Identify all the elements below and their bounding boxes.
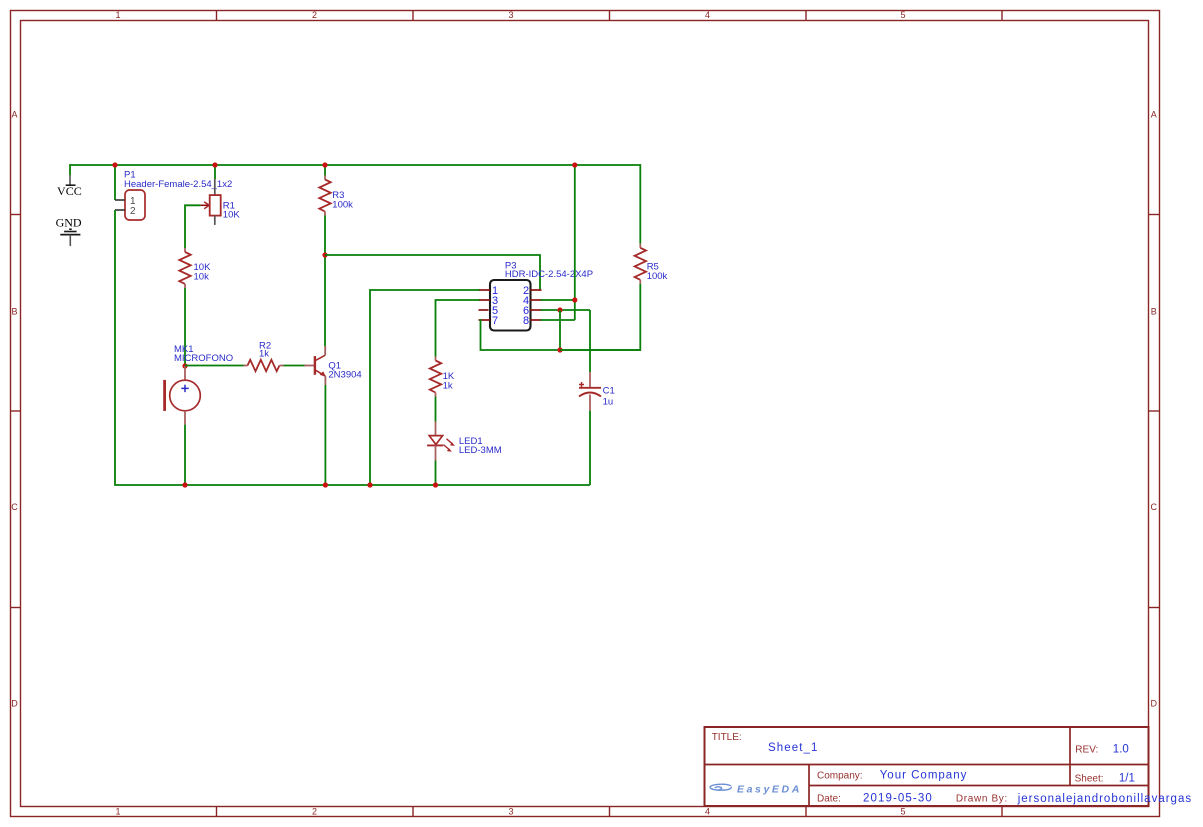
svg-text:3: 3: [508, 10, 513, 20]
svg-text:B: B: [1151, 307, 1157, 317]
label Q1: [328, 360, 341, 371]
resistor R5 100k: [635, 244, 646, 284]
label C1: [603, 386, 615, 397]
wire node to P3 pin2: [325, 255, 540, 290]
wire R4 bottom to mic node: [184, 288, 186, 366]
junction R5 net: [557, 347, 562, 352]
wire R2 to Q1 base: [284, 365, 305, 367]
svg-text:100k: 100k: [647, 271, 668, 282]
junction bottom rail at LED: [433, 482, 438, 487]
svg-text:1k: 1k: [443, 380, 453, 391]
resistor R4 10K/10k: [179, 248, 190, 288]
svg-text:C1: C1: [603, 386, 615, 397]
wire pin6 to C1: [589, 310, 591, 372]
junction top rail at R3: [322, 162, 327, 167]
wire R5 bottom to net: [560, 284, 640, 350]
wire P3 pin3: [436, 300, 480, 357]
svg-text:2: 2: [312, 10, 317, 20]
label R3: [332, 190, 344, 201]
connector P1 Header-Female-2.54_1x2: [115, 190, 145, 220]
svg-text:GND: GND: [56, 216, 82, 230]
label LED-3MM: [459, 445, 502, 456]
wire R3 top stub: [324, 165, 326, 176]
resistor R3 100k: [319, 176, 330, 216]
svg-text:A: A: [1151, 110, 1157, 120]
wire P3 pin4: [541, 299, 575, 301]
label 1k (R2 value): [259, 348, 269, 359]
svg-text:1: 1: [115, 10, 120, 20]
svg-text:5: 5: [900, 807, 905, 817]
ground GND symbol: [56, 216, 82, 246]
wire P3 pin6: [541, 309, 591, 311]
potentiometer R1 10K: [200, 179, 220, 225]
svg-text:10k: 10k: [194, 271, 210, 282]
VCC power symbol: [57, 175, 82, 198]
wire top rail drop to pin4/pin8: [574, 165, 576, 320]
junction bottom rail at mic: [182, 482, 187, 487]
wire R6 to LED1: [435, 397, 437, 422]
svg-text:Sheet_1: Sheet_1: [768, 742, 819, 754]
junction mic node: [182, 363, 187, 368]
junction bottom rail at Q1: [323, 482, 328, 487]
svg-text:1: 1: [115, 807, 120, 817]
label R2: [259, 341, 271, 352]
label R5: [647, 261, 659, 272]
wire mic to bottom rail: [184, 425, 186, 485]
svg-text:LED-3MM: LED-3MM: [459, 445, 502, 456]
label LED1: [459, 436, 483, 447]
junction pin4 node: [572, 297, 577, 302]
svg-text:8: 8: [523, 315, 529, 327]
svg-text:10K: 10K: [223, 210, 241, 221]
label 2N3904: [328, 370, 361, 381]
wire C1 to bottom rail corner: [589, 411, 591, 485]
junction top rail at P1: [112, 162, 117, 167]
junction R3/P3 pin2 tap: [322, 252, 327, 257]
svg-text:VCC: VCC: [57, 184, 82, 198]
svg-text:4: 4: [705, 807, 710, 817]
wire P3 pin8: [541, 319, 575, 321]
svg-text:2: 2: [312, 807, 317, 817]
svg-text:Company:: Company:: [817, 771, 863, 782]
svg-text:REV:: REV:: [1075, 745, 1098, 756]
wire LED1 to bottom rail: [435, 461, 437, 486]
wire P1 pin2 to bottom rail: [115, 210, 590, 485]
svg-text:jersonalejandrobonillavargas: jersonalejandrobonillavargas: [1017, 793, 1192, 805]
label P3: [505, 260, 517, 271]
label 10K (R1 value): [223, 210, 241, 221]
label R1: [223, 200, 235, 211]
svg-text:C: C: [11, 502, 18, 512]
svg-text:D: D: [11, 699, 18, 709]
svg-text:5: 5: [900, 10, 905, 20]
microphone MK1: [163, 366, 200, 425]
title block: [705, 727, 1193, 806]
junction top rail at x575: [572, 162, 577, 167]
label HDR-IDC-2.54-2X4P: [505, 269, 593, 280]
junction bottom rail at pin1 drop: [367, 482, 372, 487]
svg-text:3: 3: [508, 807, 513, 817]
svg-text:Your Company: Your Company: [880, 770, 968, 782]
svg-text:D: D: [1151, 699, 1158, 709]
transistor Q1 2N3904: [305, 346, 326, 385]
wire P1 pin1 drop: [114, 165, 116, 200]
wire pin6 node to R5 net: [559, 310, 561, 350]
label 1k: [443, 380, 453, 391]
label 10k: [194, 271, 210, 282]
svg-text:Date:: Date:: [817, 794, 841, 805]
svg-text:1u: 1u: [603, 397, 614, 408]
resistor R2 1k: [244, 360, 284, 371]
wire R3 bottom to Q1 collector: [324, 216, 326, 347]
label P1: [124, 169, 136, 180]
svg-text:Sheet:: Sheet:: [1075, 774, 1104, 785]
junction pin6 node: [557, 307, 562, 312]
svg-text:1/1: 1/1: [1119, 773, 1135, 785]
svg-text:TITLE:: TITLE:: [712, 732, 742, 743]
label 10K: [194, 262, 212, 273]
svg-text:2019-05-30: 2019-05-30: [863, 793, 933, 805]
svg-text:B: B: [11, 307, 17, 317]
svg-text:1k: 1k: [259, 348, 269, 359]
svg-text:Header-Female-2.54_1x2: Header-Female-2.54_1x2: [124, 179, 232, 190]
svg-text:100k: 100k: [332, 199, 353, 210]
label MK1: [174, 344, 194, 355]
wire mic node to R2: [185, 365, 244, 367]
wire R1 top stub: [214, 165, 216, 179]
wire P3 pin1: [370, 290, 480, 485]
wire R1 wiper to R4: [185, 205, 200, 248]
connector P3 HDR-IDC-2.54-2X4P: [479, 280, 542, 331]
label 100k (R3 value): [332, 199, 353, 210]
svg-text:4: 4: [705, 10, 710, 20]
svg-text:7: 7: [492, 315, 498, 327]
svg-text:Drawn By:: Drawn By:: [956, 794, 1008, 805]
label 100k (R5 value): [647, 271, 668, 282]
LED LED1 LED-3MM: [427, 422, 455, 461]
label 1K: [443, 371, 455, 382]
svg-text:HDR-IDC-2.54-2X4P: HDR-IDC-2.54-2X4P: [505, 269, 593, 280]
label Header-Female-2.54_1x2: [124, 179, 232, 190]
svg-text:2: 2: [130, 206, 136, 217]
svg-text:MICROFONO: MICROFONO: [174, 353, 233, 364]
label 1u (C1 value): [603, 397, 614, 408]
label MICROFONO: [174, 353, 233, 364]
svg-text:1.0: 1.0: [1113, 744, 1129, 756]
wire Q1 emitter to bottom rail: [324, 385, 326, 485]
svg-text:A: A: [11, 110, 17, 120]
capacitor C1 1u: [579, 372, 601, 411]
EasyEDA logo: [710, 784, 802, 796]
resistor R6 1K/1k: [430, 357, 441, 397]
wire VCC top rail: [70, 165, 640, 244]
wire P3 pin7: [480, 320, 641, 350]
svg-text:C: C: [1151, 502, 1158, 512]
svg-text:2N3904: 2N3904: [328, 370, 361, 381]
junction top rail at R1: [212, 162, 217, 167]
svg-text:EasyEDA: EasyEDA: [737, 784, 802, 796]
